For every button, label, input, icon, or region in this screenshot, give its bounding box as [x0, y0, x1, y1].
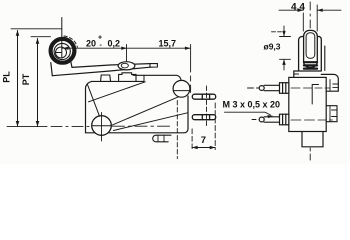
wire PT extension line — [31, 36, 51, 38]
svg-text:ø9,3: ø9,3 — [264, 42, 281, 52]
mounting hole circle — [92, 116, 112, 136]
body top ledge — [133, 75, 181, 80]
body (side view) — [289, 77, 326, 131]
plunger centerline tick — [126, 45, 128, 62]
screw terminal lower (side view) — [252, 114, 289, 125]
plunger rivet — [121, 63, 128, 68]
svg-text:0,2: 0,2 — [108, 39, 121, 49]
wire lower terminal centerline into body — [291, 119, 333, 121]
node side view centerline — [309, 2, 311, 160]
switch body outline — [86, 81, 189, 132]
wire PL extension line — [11, 28, 62, 30]
lever fork left side — [51, 63, 53, 76]
internal diagonal B — [111, 97, 179, 126]
roller (side view) — [304, 30, 318, 67]
wire leader arrow — [225, 112, 271, 115]
screw head circle — [173, 80, 190, 97]
right tab bottom — [326, 106, 337, 122]
mounting foot (main view) — [153, 135, 171, 142]
lever arm — [52, 67, 150, 76]
screw terminal upper (side view) — [248, 83, 289, 94]
roller radius mark — [56, 52, 62, 54]
wire upper terminal centerline into body — [291, 87, 330, 89]
roller (middle circle) — [54, 43, 70, 59]
wire dim 4,4 — [302, 13, 304, 31]
wire dim 7 line + arrows — [192, 147, 215, 149]
svg-text:+: + — [98, 35, 102, 42]
internal diagonal A — [89, 82, 146, 102]
lever fork right side — [70, 57, 72, 67]
svg-text:PT: PT — [21, 73, 31, 85]
wire 15,7 extension line — [190, 44, 192, 92]
svg-text:M 3 x 0,5 x 20: M 3 x 0,5 x 20 — [223, 100, 281, 110]
wire horizontal dimension line 20/15,7 — [62, 47, 191, 49]
terminal T2 (main view) — [192, 115, 215, 120]
bottom foot (side view) — [302, 132, 323, 147]
internal blade line — [114, 113, 188, 131]
svg-text:PL: PL — [2, 71, 12, 83]
roller (inner circle) — [56, 47, 67, 58]
body top edge — [92, 80, 144, 82]
wire swing arc (dashed) — [64, 36, 77, 47]
terminal T1 (main view) — [192, 94, 215, 99]
lever plate (side view) — [294, 71, 322, 77]
wire hole centerline right — [113, 125, 170, 127]
svg-text:7: 7 — [201, 135, 206, 146]
wire hidden edge dashes — [176, 101, 178, 159]
svg-text:20: 20 — [86, 39, 96, 49]
wire dim 9,3 — [272, 31, 284, 33]
internal diagonal C — [87, 84, 99, 116]
node roller centerline (main view) — [61, 18, 63, 59]
wire dim 7 extension lines — [191, 129, 193, 149]
svg-text:15,7: 15,7 — [159, 39, 177, 49]
wire PL dimension line — [17, 31, 19, 127]
roller (outer ring) — [51, 39, 75, 63]
lever tip — [150, 64, 157, 68]
wire bottom reference centerline — [7, 126, 98, 128]
plunger dome — [118, 62, 135, 70]
node hole vertical centerline — [101, 113, 103, 142]
roller shading bands — [304, 62, 317, 68]
pivot post — [101, 75, 111, 81]
lever fork (side view) — [299, 37, 322, 71]
right tab top — [330, 80, 338, 92]
plunger collar — [119, 73, 136, 81]
body inner channel — [312, 85, 318, 105]
wire PT dimension line — [37, 39, 39, 127]
